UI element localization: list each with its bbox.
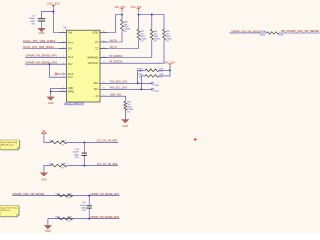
junction dot (84.3,165.6) bbox=[83, 165, 85, 167]
svg-text:TP40: TP40 bbox=[154, 85, 160, 87]
svg-text:TC: TC bbox=[95, 48, 98, 50]
svg-text:SCL: SCL bbox=[94, 89, 99, 91]
resistor R39 bbox=[145, 75, 159, 78]
R38 labels bbox=[137, 69, 163, 73]
U6 left pin names bbox=[68, 32, 74, 93]
R39 labels bbox=[137, 74, 163, 78]
wire R76 to GND bbox=[124, 110, 126, 118]
wire net OPAMP_VM_SENSE_INP1 bbox=[25, 56, 66, 58]
svg-text:1%: 1% bbox=[159, 77, 162, 79]
R37 value labels bbox=[140, 31, 146, 43]
wire net OPAMP_VDA_VM_SENSE (bottom) bbox=[12, 195, 119, 197]
wire R30 to net INP1 bbox=[67, 141, 118, 143]
wire R41 top bbox=[151, 15, 153, 30]
note box 1 bbox=[0, 140, 20, 150]
wire INN2 to IN-3 bbox=[50, 64, 67, 77]
wire R39 to SCL bbox=[140, 76, 142, 89]
svg-text:GND: GND bbox=[39, 33, 45, 35]
junction dot (138.5,14.5) bbox=[138, 14, 140, 16]
junction dot (170,70.3) bbox=[169, 69, 171, 71]
wire net VCC_P0_VM_INP1 bbox=[23, 42, 67, 44]
R30 labels bbox=[49, 140, 67, 146]
svg-text:100nF: 100nF bbox=[80, 205, 87, 207]
wire SDA bbox=[100, 82, 151, 84]
svg-text:VCC_3V3: VCC_3V3 bbox=[114, 6, 125, 9]
wire R37 top bbox=[138, 15, 140, 30]
svg-text:VCC_P0_VM_INP1: VCC_P0_VM_INP1 bbox=[23, 40, 57, 43]
wire net OPAMP_VDA_VM_SENSE (R40 left) bbox=[229, 32, 266, 34]
wire VCC pullup rail bbox=[139, 13, 165, 14]
R42 value labels bbox=[166, 31, 172, 43]
svg-text:SDA: SDA bbox=[94, 82, 99, 85]
wire R42 to CRITICAL bbox=[100, 40, 164, 63]
resistor R42 bbox=[163, 29, 166, 40]
svg-text:GND: GND bbox=[48, 103, 54, 105]
junction dot (49.5,64.2) bbox=[49, 63, 51, 65]
resistor R36 bbox=[121, 19, 124, 31]
svg-text:OPAMP_VM_SENSE_INN2: OPAMP_VM_SENSE_INN2 bbox=[26, 62, 58, 65]
capacitor C22 bbox=[87, 196, 92, 219]
svg-text:TP42: TP42 bbox=[154, 91, 160, 93]
wire R37 to TC bbox=[100, 40, 139, 49]
wire R38 to SDA bbox=[137, 70, 139, 83]
junction dot (53.4,11.6) bbox=[52, 11, 54, 13]
test point TP40 bbox=[151, 82, 159, 87]
U6 part number INA3221AIRGVR bbox=[64, 102, 84, 105]
svg-text:OPAMP_VM_SENSE_INP1: OPAMP_VM_SENSE_INP1 bbox=[91, 193, 120, 196]
R36 value labels bbox=[124, 21, 130, 33]
R32 labels bbox=[56, 217, 74, 223]
svg-text:IN-1: IN-1 bbox=[68, 48, 73, 50]
junction dot (122,14.5) bbox=[121, 14, 123, 16]
svg-text:GPIO: GPIO bbox=[93, 32, 99, 34]
wire R42 top bbox=[163, 15, 165, 30]
ground GND (R76) bbox=[122, 118, 129, 128]
junction dot (89.2,218.6) bbox=[88, 218, 90, 220]
svg-text:IN+2: IN+2 bbox=[68, 57, 74, 59]
wire R31 to net INN1 bbox=[67, 165, 118, 167]
svg-text:1%: 1% bbox=[159, 71, 162, 73]
svg-text:VM_TC: VM_TC bbox=[110, 46, 118, 49]
svg-text:R33 close: R33 close bbox=[1, 210, 10, 212]
wire R38 right bbox=[159, 69, 170, 71]
junction dot (84.3,142.4) bbox=[83, 141, 85, 143]
svg-text:25V: 25V bbox=[75, 157, 79, 159]
svg-text:CRITICAL: CRITICAL bbox=[88, 62, 99, 65]
svg-text:VCC_P0_VM_INP1: VCC_P0_VM_INP1 bbox=[97, 140, 118, 143]
C12 value labels bbox=[73, 149, 80, 159]
R41 value labels bbox=[154, 31, 160, 43]
test point TP42 bbox=[151, 88, 159, 93]
U6 right pin names bbox=[87, 32, 99, 98]
svg-text:U6: U6 bbox=[63, 26, 67, 30]
wire R32 to GND bbox=[47, 219, 49, 224]
junction dot (137.7,83.3) bbox=[137, 82, 139, 84]
resistor R38 bbox=[145, 69, 159, 72]
C22 value labels bbox=[80, 202, 87, 212]
resistor R31 bbox=[51, 164, 67, 167]
power flag VCC_3V3 (pullup rail) bbox=[131, 6, 142, 12]
wire GND down bbox=[50, 88, 52, 95]
svg-text:SB_OPAMP_VDA_VM_SENSE: SB_OPAMP_VDA_VM_SENSE bbox=[281, 30, 319, 33]
power flag VCC_3V3 (R36) bbox=[114, 6, 125, 12]
U6 right pin stubs bbox=[100, 33, 108, 97]
svg-text:OPAMP_VM_SENSE_INP1: OPAMP_VM_SENSE_INP1 bbox=[26, 55, 58, 58]
svg-text:2k: 2k bbox=[139, 77, 142, 79]
svg-text:1%: 1% bbox=[61, 168, 64, 170]
wire R31 to GND bbox=[44, 166, 51, 172]
wire R41 to WARNING bbox=[100, 40, 152, 58]
ground GND (C7) bbox=[38, 27, 45, 35]
wire net SB_OPAMP_VDA_VM_SENSE bbox=[279, 32, 320, 34]
svg-text:GND: GND bbox=[123, 126, 129, 128]
svg-text:IN-3: IN-3 bbox=[68, 77, 73, 79]
U6 left pin numbers bbox=[62, 31, 64, 92]
svg-text:100nF: 100nF bbox=[73, 152, 80, 154]
svg-text:OPAMP_VM_SENSE_INN2: OPAMP_VM_SENSE_INN2 bbox=[91, 216, 120, 219]
wire VCC down to pullups bbox=[159, 67, 170, 76]
note box 2 bbox=[0, 206, 20, 218]
R31 labels bbox=[49, 164, 67, 170]
wire power to R30 bbox=[44, 135, 51, 142]
svg-text:25V: 25V bbox=[31, 24, 35, 26]
svg-text:GND: GND bbox=[41, 179, 47, 181]
svg-text:1%: 1% bbox=[127, 112, 130, 114]
op-amp/monitor IC U6 body bbox=[66, 30, 100, 102]
junction dot (141.3,89.3) bbox=[140, 88, 142, 90]
svg-text:WARNING: WARNING bbox=[87, 56, 98, 59]
ground GND (R32) bbox=[44, 224, 51, 233]
svg-text:VCC_P0_VM_INN1: VCC_P0_VM_INN1 bbox=[23, 46, 55, 49]
svg-text:25V: 25V bbox=[82, 210, 86, 212]
svg-text:1%: 1% bbox=[154, 41, 157, 43]
wire net VCC_P0_VM_INN1 bbox=[23, 48, 67, 50]
svg-text:VM_PV: VM_PV bbox=[110, 39, 118, 42]
svg-text:GND: GND bbox=[68, 88, 73, 90]
R33 labels bbox=[56, 194, 74, 200]
junction dot (151.8,14.5) bbox=[151, 14, 153, 16]
wire A0 bbox=[100, 96, 125, 101]
power flag VCC_3V3 (top-left) bbox=[47, 3, 60, 9]
C7 value labels bbox=[29, 15, 36, 25]
ground GND (R31) bbox=[40, 171, 47, 181]
svg-text:GND: GND bbox=[45, 231, 51, 233]
wire VCC to R36 bbox=[121, 13, 123, 19]
wire R36 to PV bbox=[100, 31, 122, 42]
svg-text:VM_A0: VM_A0 bbox=[110, 94, 122, 97]
power flag VCC_3V3 (SDA/SCL) bbox=[164, 61, 175, 67]
power port arrow (VCC_P0) bbox=[42, 130, 47, 135]
svg-text:VCC_P0_VM_INN1: VCC_P0_VM_INN1 bbox=[97, 163, 118, 166]
resistor R76 bbox=[124, 101, 127, 110]
svg-text:100nF: 100nF bbox=[29, 18, 36, 20]
svg-text:1%: 1% bbox=[140, 41, 143, 43]
wire R38 left bbox=[138, 69, 145, 71]
resistor R40 bbox=[267, 32, 280, 35]
junction dot (50.6,91.4) bbox=[50, 90, 52, 92]
svg-text:R30, R31 close: R30, R31 close bbox=[1, 145, 14, 147]
svg-text:1%: 1% bbox=[61, 145, 64, 147]
resistor R37 bbox=[137, 29, 140, 40]
wire VCC to C7 bbox=[42, 12, 54, 19]
R76 value labels bbox=[127, 102, 133, 114]
wire GND pin bbox=[51, 87, 67, 89]
ground GND (U6) bbox=[47, 95, 54, 104]
wire net OPAMP_VM_SENSE_INN2 bbox=[25, 63, 66, 65]
svg-text:IN+3: IN+3 bbox=[68, 74, 74, 76]
svg-text:VM_WARNING: VM_WARNING bbox=[109, 55, 123, 58]
svg-text:EPAD: EPAD bbox=[68, 90, 74, 93]
no-connect X on IN+3 bbox=[55, 73, 58, 76]
capacitor C12 bbox=[82, 142, 87, 165]
svg-text:VCC_3V3: VCC_3V3 bbox=[131, 6, 142, 9]
U6 right pin numbers bbox=[103, 31, 105, 97]
svg-text:IN-2: IN-2 bbox=[68, 64, 73, 66]
U6 left pin stubs bbox=[58, 33, 67, 92]
wire bottom row bbox=[48, 218, 120, 220]
wire VCC to Vdd pin bbox=[53, 9, 66, 33]
red marker dot bbox=[194, 139, 197, 141]
svg-text:VM_CRITICAL: VM_CRITICAL bbox=[109, 61, 123, 64]
R40 labels bbox=[260, 31, 284, 37]
svg-text:DNI: DNI bbox=[279, 35, 283, 37]
resistor R41 bbox=[150, 29, 153, 40]
svg-text:1%: 1% bbox=[124, 31, 127, 33]
wire SCL bbox=[100, 88, 151, 90]
capacitor C7 bbox=[38, 19, 45, 27]
svg-text:VM_SDA_3V3: VM_SDA_3V3 bbox=[110, 81, 128, 84]
junction dot (89.2,195.6) bbox=[88, 195, 90, 197]
svg-text:1%: 1% bbox=[67, 221, 70, 223]
svg-text:OPAMP_VDA_VM_SENSE: OPAMP_VDA_VM_SENSE bbox=[231, 30, 261, 33]
svg-text:OPAMP_VDA_VM_SENSE: OPAMP_VDA_VM_SENSE bbox=[12, 193, 44, 196]
resistor R32 bbox=[57, 217, 72, 220]
svg-text:1%: 1% bbox=[67, 198, 70, 200]
wire EPAD pin bbox=[51, 90, 67, 92]
resistor R33 bbox=[57, 194, 72, 197]
svg-text:IN+1: IN+1 bbox=[68, 42, 74, 44]
svg-text:PV: PV bbox=[95, 42, 99, 44]
svg-text:1%: 1% bbox=[166, 41, 169, 43]
wire GPIO to VCC rail bbox=[100, 15, 122, 33]
svg-text:VM_SCL_3V3: VM_SCL_3V3 bbox=[110, 87, 128, 90]
wire R39 left bbox=[141, 75, 145, 77]
svg-text:Vdd: Vdd bbox=[68, 32, 73, 34]
svg-text:2k: 2k bbox=[139, 71, 142, 73]
resistor R30 bbox=[51, 141, 67, 144]
